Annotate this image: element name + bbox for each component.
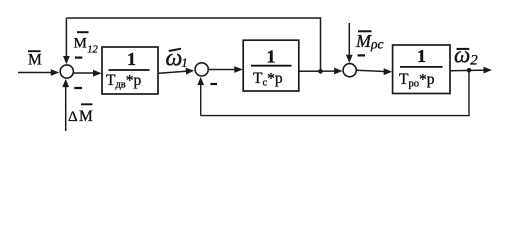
wire: junction 2 to block 2 with arrow [209, 66, 243, 73]
summing junction 1 [60, 65, 73, 78]
top feedback wire (M12) vertical into junction 1 with arrow [63, 18, 70, 64]
block U1: 1/(Tdv*p) motor integrator [102, 47, 158, 94]
minus sign at junction 2 bottom input [211, 83, 218, 85]
block U3: 1/(Tpo*p) working body integrator [393, 45, 450, 94]
svg-text:Δ: Δ [68, 109, 78, 125]
label delta-M [68, 104, 93, 125]
svg-text:M: M [79, 108, 93, 125]
minus sign at junction 1 top input [75, 56, 82, 58]
svg-text:Тс*р: Тс*р [253, 70, 283, 89]
svg-text:1: 1 [127, 49, 136, 69]
wire: block 1 to summing junction 2 with arrow [159, 68, 194, 75]
svg-text:1: 1 [417, 46, 426, 66]
wire: Mpc load input from top into junction 3 with arrow [346, 23, 353, 63]
label omega-1 (motor speed node) [166, 46, 188, 72]
label omega-2 (output speed node) [454, 42, 478, 68]
label M12 (shaft torque) [74, 32, 99, 55]
svg-text:M: M [28, 52, 42, 69]
wire: bottom feedback rising into junction 2 with arrow [197, 77, 204, 116]
block U2: 1/(Tc*p) elastic coupling integrator [243, 40, 299, 91]
wire: top feedback run (junction dot up and across to junction 1) [67, 18, 321, 71]
wire: block 3 to output arrow [450, 67, 492, 74]
wire: input M to summing junction 1 [18, 69, 59, 76]
wire: bottom feedback run (output dot down, across, to junction 2 riser) [201, 70, 470, 115]
wire: block 2 to summing junction 3 with arrow [299, 68, 343, 75]
wire: delta-M input from bottom into junction 1 with arrow [62, 79, 69, 131]
node: output junction dot [467, 68, 472, 73]
label M-bar (input torque) [28, 51, 42, 68]
wire: junction 1 to block 1 with arrow [74, 70, 102, 77]
minus sign at junction 1 bottom input [74, 87, 82, 89]
minus sign at junction 3 top input [358, 54, 366, 56]
node: junction dot feeding top feedback [318, 69, 323, 74]
label Mpc (load torque) [355, 31, 383, 52]
wire: junction 3 to block 3 with arrow [357, 68, 392, 75]
summing junction 2 [195, 63, 208, 76]
svg-text:1: 1 [267, 47, 276, 67]
summing junction 3 [343, 64, 356, 77]
